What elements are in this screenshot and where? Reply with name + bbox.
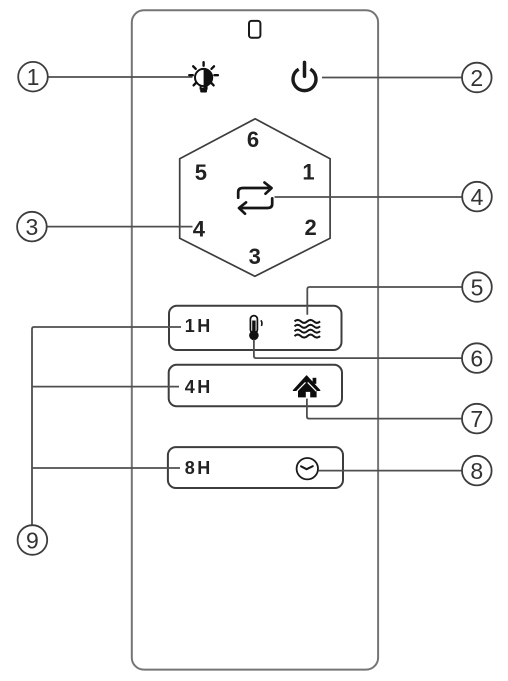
- cycle/oscillation icon: [238, 183, 272, 214]
- svg-text:3: 3: [249, 244, 261, 269]
- IR LED window: [249, 21, 260, 38]
- light/dimmer bulb icon: [189, 62, 218, 92]
- 1H button: [169, 306, 342, 350]
- svg-text:9: 9: [26, 527, 39, 553]
- callout circle 5: [462, 272, 492, 302]
- callout circle 6: [462, 343, 492, 373]
- svg-text:8H: 8H: [185, 458, 213, 478]
- svg-text:2: 2: [304, 215, 316, 240]
- callout 9 branch lines: [32, 327, 181, 525]
- callout line 2: [322, 77, 462, 79]
- callout circle 8: [462, 456, 492, 486]
- svg-text:4: 4: [193, 216, 206, 241]
- callout line 7: [307, 399, 462, 419]
- callout line 4: [275, 196, 463, 198]
- callout circle 9: [18, 525, 48, 555]
- clock/sleep icon: [297, 458, 318, 479]
- callout circle 1: [18, 62, 48, 92]
- svg-text:6: 6: [470, 345, 483, 371]
- 4H button: [169, 365, 342, 407]
- callout circle 2: [462, 63, 492, 93]
- svg-text:1: 1: [27, 64, 40, 90]
- callout line 6: [254, 340, 462, 359]
- wave icon: [295, 320, 321, 338]
- thermometer icon: [249, 316, 262, 341]
- callout line 3: [47, 226, 193, 228]
- svg-text:5: 5: [471, 274, 484, 300]
- svg-text:4H: 4H: [185, 377, 213, 397]
- callout line 8: [318, 470, 462, 472]
- remote body outline: [132, 10, 378, 669]
- callout circle 7: [462, 404, 492, 434]
- svg-text:2: 2: [470, 65, 483, 91]
- callout circle 3: [17, 212, 47, 242]
- callout line 5: [307, 287, 462, 315]
- svg-text:6: 6: [247, 127, 259, 152]
- home icon: [293, 376, 319, 398]
- svg-text:4: 4: [471, 184, 484, 210]
- svg-text:7: 7: [470, 406, 483, 432]
- 8H button: [168, 447, 343, 488]
- svg-text:8: 8: [470, 458, 483, 484]
- callout line 1: [48, 76, 193, 78]
- svg-text:1: 1: [302, 160, 314, 185]
- svg-text:5: 5: [195, 160, 207, 185]
- callout circle 4: [462, 182, 492, 212]
- hexagon speed selector: [180, 119, 330, 276]
- svg-text:1H: 1H: [185, 316, 213, 336]
- svg-text:3: 3: [26, 214, 39, 240]
- power icon: [293, 62, 316, 90]
